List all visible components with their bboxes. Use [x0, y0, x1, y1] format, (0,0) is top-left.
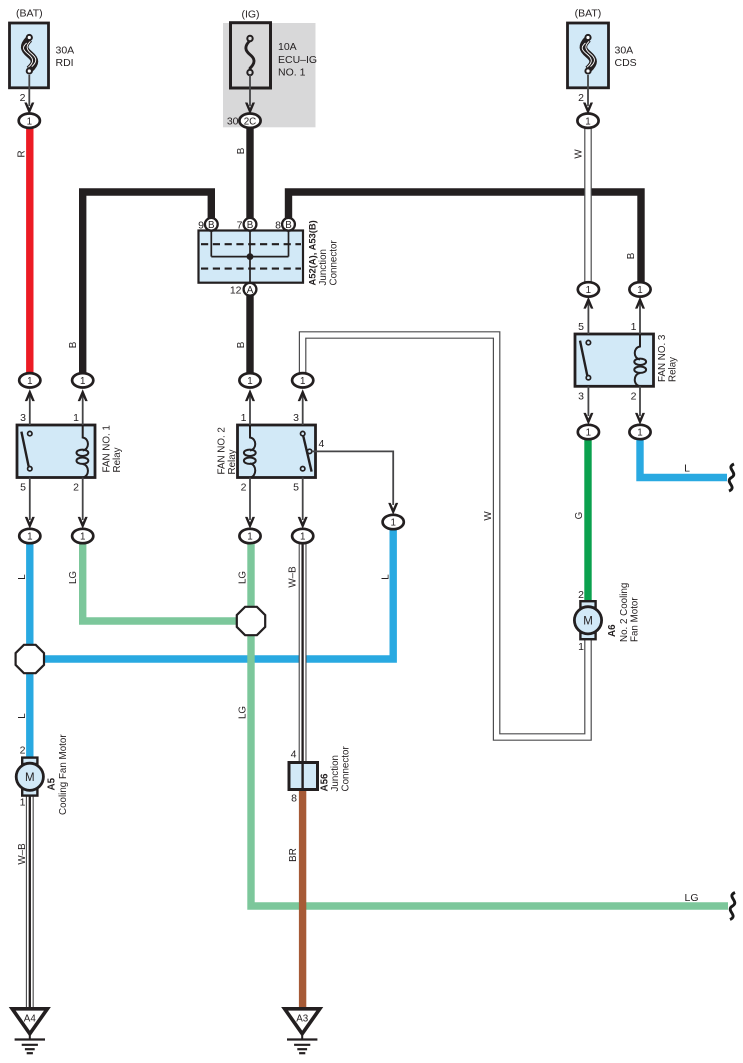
svg-text:1: 1: [300, 532, 305, 543]
svg-text:8: 8: [291, 793, 297, 805]
svg-text:2: 2: [20, 92, 26, 104]
svg-text:2: 2: [631, 391, 637, 403]
svg-text:(IG): (IG): [241, 9, 259, 21]
relay2 name: [216, 427, 238, 474]
svg-text:L: L: [17, 713, 28, 719]
svg-text:3: 3: [293, 412, 299, 424]
svg-text:W: W: [574, 149, 585, 159]
relay3 pin 3 lead: [583, 386, 593, 425]
relay1 pin 2 lead: [78, 478, 88, 529]
svg-text:W–B: W–B: [288, 566, 299, 588]
svg-text:1: 1: [241, 412, 247, 424]
svg-text:1: 1: [586, 428, 591, 439]
svg-text:10A: 10A: [278, 41, 297, 53]
svg-text:A56: A56: [320, 773, 331, 792]
svg-text:2C: 2C: [244, 116, 257, 127]
svg-text:30: 30: [227, 116, 239, 128]
svg-text:LG: LG: [238, 706, 249, 719]
relay2 pin 3 lead: [298, 389, 308, 425]
svg-text:FAN NO. 1: FAN NO. 1: [102, 425, 113, 472]
relay3 name: [657, 334, 678, 382]
motor A6 name: [607, 624, 618, 637]
svg-text:A3: A3: [296, 1014, 309, 1025]
svg-text:7: 7: [237, 219, 243, 231]
svg-text:1: 1: [300, 376, 305, 387]
svg-text:5: 5: [20, 482, 26, 494]
fuse pin lines and arrows: [28, 75, 30, 106]
wire label B (right bus): [626, 252, 637, 259]
svg-text:2: 2: [241, 482, 247, 494]
svg-text:R: R: [17, 150, 28, 157]
svg-text:(BAT): (BAT): [16, 8, 43, 20]
svg-text:5: 5: [578, 321, 584, 333]
svg-text:LG: LG: [684, 892, 698, 904]
relay1 pin 3 lead: [25, 389, 35, 425]
wire B bus right (junction pin 8 to relay3 coil): [289, 192, 642, 286]
wire G relay3 pin3 to motor A6: [584, 439, 591, 604]
junction name A52(A), A53(B): [307, 220, 340, 285]
svg-text:Junction: Junction: [318, 249, 329, 286]
svg-text:3: 3: [578, 391, 584, 403]
svg-text:3: 3: [20, 412, 26, 424]
svg-text:RDI: RDI: [56, 57, 74, 69]
svg-text:LG: LG: [68, 571, 79, 584]
svg-text:5: 5: [293, 482, 299, 494]
svg-text:Relay: Relay: [112, 447, 123, 472]
fuse 30A RDI box: [10, 23, 49, 88]
svg-text:A6: A6: [607, 624, 618, 637]
svg-text:L: L: [17, 574, 28, 580]
svg-text:B: B: [236, 147, 247, 154]
relay1 pin 1 lead: [78, 389, 88, 425]
relay2 pin 2 lead: [245, 478, 255, 529]
relay1 name: [102, 425, 123, 472]
svg-text:L: L: [684, 463, 690, 475]
svg-text:2: 2: [73, 482, 79, 494]
svg-text:CDS: CDS: [615, 57, 637, 69]
svg-text:12: 12: [230, 284, 242, 296]
svg-text:2: 2: [578, 589, 584, 601]
svg-text:W–B: W–B: [17, 843, 28, 865]
svg-text:W: W: [483, 511, 494, 521]
svg-text:Cooling Fan Motor: Cooling Fan Motor: [58, 734, 69, 815]
svg-text:4: 4: [291, 749, 297, 761]
gray background panel behind IG fuse: [223, 23, 316, 127]
svg-text:1: 1: [631, 321, 637, 333]
relay FAN NO.2 pin4 wire: [312, 451, 394, 505]
svg-text:A4: A4: [24, 1014, 37, 1025]
svg-text:2: 2: [20, 745, 26, 757]
svg-text:2: 2: [578, 92, 584, 104]
wire W from CDS fuse to relay3 pin 5: [584, 125, 592, 287]
svg-text:A52(A), A53(B): A52(A), A53(B): [307, 220, 318, 285]
fuse 10A ECU-IG NO.1 box: [231, 23, 271, 88]
relay FAN NO.1 box: [17, 425, 95, 478]
wire label W (CDS drop): [574, 149, 585, 159]
svg-text:Relay: Relay: [667, 357, 678, 382]
svg-text:1: 1: [80, 376, 85, 387]
svg-text:Connector: Connector: [328, 240, 339, 286]
relay3 pin 2 lead: [635, 386, 645, 425]
svg-text:A5: A5: [47, 777, 58, 790]
connector ellipse 2C under IG: [239, 114, 260, 128]
relay3 pin 1 lead: [635, 297, 645, 334]
svg-text:1: 1: [247, 376, 252, 387]
wire BR (A56 to ground A3): [299, 787, 306, 1011]
relay1 pin 5 lead: [25, 478, 35, 529]
wire W long (relay2 pin3 loop to motor A6 pin1): [303, 335, 588, 737]
svg-text:1: 1: [247, 532, 252, 543]
wire R (RDI fuse to relay1 pin 3): [26, 124, 33, 377]
relay FAN NO.3 box: [575, 334, 654, 386]
wire L relay1 pin5 down to motor A5: [26, 539, 33, 760]
svg-text:1: 1: [390, 518, 395, 529]
svg-text:ECU–IG: ECU–IG: [278, 54, 317, 66]
wire label W-B (motor A5): [17, 843, 28, 865]
wire B bus left (junction pin 9 to relay1 coil): [83, 192, 212, 377]
motor A5 name: [47, 777, 58, 790]
junction pin circle B 7: [244, 218, 257, 231]
continuation squiggle green LG: [730, 893, 735, 920]
svg-text:1: 1: [578, 641, 584, 653]
junction connector A52/A53 box: [199, 231, 304, 283]
svg-text:1: 1: [27, 532, 32, 543]
svg-text:B: B: [208, 220, 215, 231]
svg-text:Junction: Junction: [330, 755, 341, 792]
wire L horizontal from splice to relay2 pin4 connector: [30, 528, 393, 659]
svg-text:B: B: [68, 341, 79, 348]
splice octagon S2: [237, 607, 265, 635]
svg-text:NO. 1: NO. 1: [278, 67, 306, 79]
svg-text:30A: 30A: [56, 45, 75, 57]
svg-text:(BAT): (BAT): [575, 8, 602, 20]
relay3 pin 5 lead: [583, 297, 593, 334]
junction pin circle A 12: [244, 283, 257, 296]
fuse 30A CDS box: [568, 23, 609, 88]
svg-text:1: 1: [585, 116, 590, 127]
wire label LG (relay1 pin2): [68, 571, 79, 584]
svg-text:Fan Motor: Fan Motor: [629, 597, 640, 642]
svg-text:Relay: Relay: [227, 449, 238, 474]
svg-text:A: A: [247, 285, 254, 296]
svg-text:LG: LG: [238, 571, 249, 584]
wire W-B relay2 pin5 to A56 pin4: [299, 539, 307, 764]
svg-text:B: B: [236, 341, 247, 348]
motor A5: [16, 758, 43, 796]
svg-text:1: 1: [27, 116, 32, 127]
wire label W-B (relay2 pin5): [288, 566, 299, 588]
svg-text:FAN NO. 2: FAN NO. 2: [216, 427, 227, 474]
wire LG relay1 pin2 to splice S2: [83, 539, 251, 621]
ground A4: [12, 1009, 47, 1053]
relay2 pin 1 lead: [245, 389, 255, 425]
wire label B (IG drop): [236, 147, 247, 154]
wire L relay3 pin2 to right edge: [640, 439, 727, 478]
svg-text:M: M: [583, 616, 593, 628]
connector ellipses above relays: [19, 373, 40, 387]
wire LG relay2 pin2 down and right to edge: [251, 539, 728, 906]
svg-text:M: M: [25, 772, 35, 784]
relay FAN NO.2 box: [238, 425, 316, 478]
junction pin circle B 8: [282, 218, 295, 231]
svg-text:1: 1: [80, 532, 85, 543]
wire label B (junction drop): [236, 341, 247, 348]
svg-text:4: 4: [319, 438, 325, 450]
wire label W (long wire): [483, 511, 494, 521]
wire label LG (relay2 pin2): [238, 571, 249, 584]
wire label R: [17, 150, 28, 157]
svg-text:1: 1: [73, 412, 79, 424]
svg-text:B: B: [285, 220, 292, 231]
svg-text:B: B: [247, 220, 254, 231]
connector ellipse 1 under CDS: [577, 114, 598, 128]
svg-text:L: L: [381, 574, 392, 580]
wire label B (relay1 coil): [68, 341, 79, 348]
svg-text:1: 1: [586, 285, 591, 296]
junction connector A56 box: [289, 763, 318, 790]
svg-text:1: 1: [637, 285, 642, 296]
svg-text:1: 1: [27, 376, 32, 387]
svg-text:No. 2 Cooling: No. 2 Cooling: [619, 583, 630, 642]
svg-text:G: G: [574, 512, 585, 520]
svg-text:30A: 30A: [615, 45, 634, 57]
wire B from IG fuse to junction pin 7: [246, 124, 253, 221]
junction pin circle B 9: [205, 218, 218, 231]
svg-text:BR: BR: [288, 848, 299, 862]
relay2 pin 5 lead: [298, 478, 308, 529]
svg-text:1: 1: [20, 797, 26, 809]
connector ellipses below relays: [19, 529, 40, 543]
A56 name: [320, 746, 352, 792]
splice octagon S1: [16, 645, 44, 673]
svg-text:FAN NO. 3: FAN NO. 3: [657, 334, 668, 382]
wire W-B motor A5 pin1 to ground A4: [26, 792, 34, 1010]
wire label G: [574, 512, 585, 520]
ground A3: [285, 1009, 320, 1053]
svg-text:9: 9: [198, 219, 204, 231]
wire label L (relay2 pin4): [381, 574, 392, 580]
wire label L (below splice): [17, 713, 28, 719]
wire label LG (below splice): [238, 706, 249, 719]
wire B junction pin 12 drop to relay2 coil: [246, 292, 253, 377]
svg-text:1: 1: [637, 428, 642, 439]
wire label BR: [288, 848, 299, 862]
svg-text:8: 8: [275, 219, 281, 231]
motor A6: [574, 601, 601, 639]
connector ellipse 1 under RDI: [19, 114, 40, 128]
continuation squiggle blue L: [729, 464, 734, 491]
svg-text:B: B: [626, 252, 637, 259]
wire label L (relay1 pin5): [17, 574, 28, 580]
svg-text:Connector: Connector: [340, 746, 351, 792]
